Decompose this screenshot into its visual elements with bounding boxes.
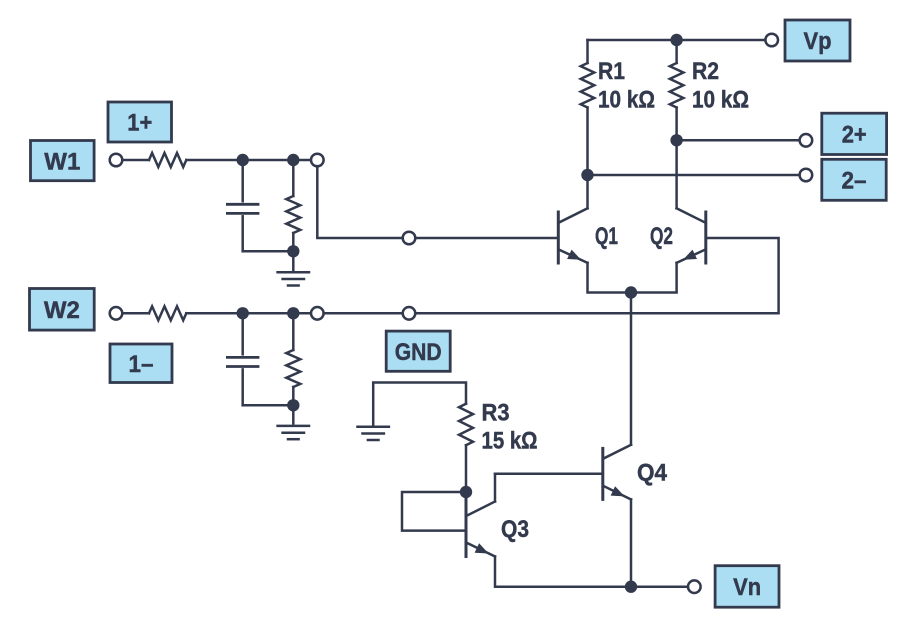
ground W1 RC	[278, 251, 309, 285]
svg-text:W1: W1	[44, 148, 80, 175]
wire W1 row	[243, 159, 311, 162]
wire W2 row to Q2 base corner	[415, 238, 778, 313]
transistor Q1	[558, 208, 587, 263]
wire Q3 collector to Q4 base	[494, 474, 497, 502]
wire Q4 base	[495, 473, 603, 476]
value label R2	[692, 58, 719, 85]
wire emitter bus down to Q4	[630, 293, 633, 445]
terminal W2	[110, 307, 123, 320]
svg-text:Q3: Q3	[501, 516, 529, 543]
resistor W1 shunt	[286, 160, 300, 251]
terminal branch row	[403, 232, 416, 245]
wire W2 mid to GND terminal	[324, 312, 403, 315]
label Vn	[715, 566, 779, 608]
svg-text:1+: 1+	[127, 110, 152, 137]
value label R3	[482, 400, 510, 427]
svg-text:R3: R3	[482, 400, 510, 427]
value label R1 10 kOhm	[598, 87, 655, 114]
value label R1	[598, 58, 625, 85]
node top rail / R2 top junction	[670, 34, 682, 46]
node W2 RC bottom	[287, 399, 299, 411]
label 2+	[822, 113, 887, 154]
transistor Q3	[466, 492, 495, 557]
node R3 Q3 junction	[460, 486, 472, 498]
terminal Vp	[765, 34, 778, 47]
resistor W2 series	[124, 306, 243, 320]
node W1 res junction	[287, 154, 299, 166]
wire Q1 emitter	[588, 263, 632, 293]
node Vn junction	[625, 581, 637, 593]
value label R3 15 kOhm	[482, 428, 538, 455]
wire W2 row	[243, 312, 311, 315]
wire Vn row	[631, 585, 687, 588]
ground W2 RC	[278, 405, 309, 439]
terminal W2 mid	[311, 307, 324, 320]
node W2 res junction	[287, 307, 299, 319]
resistor R1	[581, 40, 595, 175]
label Vp	[785, 20, 850, 61]
resistor W2 shunt	[286, 313, 300, 405]
label 1+	[108, 102, 172, 142]
wire GND to R3 top	[373, 383, 466, 425]
svg-text:Q1: Q1	[595, 223, 618, 250]
svg-text:2–: 2–	[842, 168, 867, 195]
resistor W1 series	[124, 153, 243, 167]
svg-text:Q2: Q2	[650, 223, 673, 250]
node 2+ / R2 bottom junction	[670, 134, 682, 146]
svg-text:R2: R2	[692, 58, 719, 85]
resistor R2	[670, 40, 684, 140]
label Q1	[595, 223, 618, 250]
value label R2 10 kOhm	[692, 87, 749, 114]
svg-text:15 kΩ: 15 kΩ	[482, 428, 538, 455]
svg-text:10 kΩ: 10 kΩ	[692, 87, 749, 114]
label GND	[386, 331, 450, 371]
node W2 cap junction	[237, 307, 249, 319]
node 2- / R1 bottom junction	[581, 169, 593, 181]
wire Q1 collector	[586, 175, 589, 208]
terminal 2-	[800, 169, 813, 182]
ground GND symbol	[358, 427, 389, 440]
wire W1 drop to branch row	[317, 166, 402, 238]
capacitor C2	[227, 313, 258, 405]
transistor Q2	[677, 208, 706, 263]
wire Q3 emitter	[495, 557, 631, 587]
transistor Q4	[603, 445, 631, 500]
node W1 cap junction	[237, 154, 249, 166]
wire top rail Vp	[588, 39, 765, 42]
terminal Vn	[688, 580, 701, 593]
label Q2	[650, 223, 673, 250]
label W1	[31, 141, 95, 181]
label W2	[30, 289, 95, 331]
svg-text:Vn: Vn	[733, 574, 761, 601]
svg-text:Q4: Q4	[637, 460, 668, 487]
svg-text:2+: 2+	[842, 122, 867, 149]
svg-text:R1: R1	[598, 58, 625, 85]
terminal 2+	[800, 134, 813, 147]
label 2-	[822, 159, 886, 200]
wire branch row to Q1 base	[415, 237, 558, 240]
svg-text:GND: GND	[395, 339, 442, 366]
terminal W1 mid	[311, 154, 324, 167]
svg-text:W2: W2	[44, 297, 80, 324]
node W1 RC bottom	[287, 245, 299, 257]
wire Q2 collector	[675, 140, 678, 208]
node emitter junction	[625, 286, 637, 298]
wire C1 to gnd node	[243, 250, 294, 253]
wire C2 to gnd node	[243, 404, 294, 407]
svg-text:1–: 1–	[129, 351, 154, 378]
wire Q2 emitter	[631, 263, 677, 293]
label 1-	[110, 344, 172, 383]
wire 2+ row	[677, 139, 799, 142]
svg-text:Vp: Vp	[804, 28, 832, 55]
label Q4	[637, 460, 668, 487]
svg-text:10 kΩ: 10 kΩ	[598, 87, 655, 114]
terminal GND row	[403, 307, 416, 320]
wire Q3 base loop	[402, 492, 466, 531]
label Q3	[501, 516, 529, 543]
capacitor C1	[227, 160, 258, 251]
terminal W1	[110, 154, 123, 167]
wire Q4 emitter	[630, 499, 633, 586]
resistor R3	[459, 404, 473, 492]
wire 2- row	[588, 174, 799, 177]
